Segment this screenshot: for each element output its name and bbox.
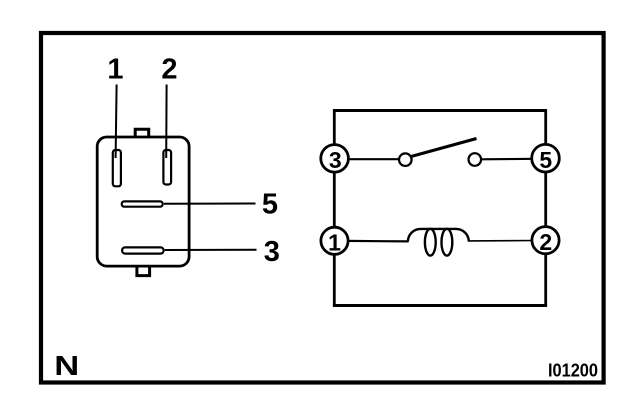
leader line pin 5: [164, 203, 256, 205]
terminal 1: [321, 227, 348, 255]
svg-text:5: 5: [539, 147, 552, 173]
terminal 5: [532, 144, 560, 172]
pin 5 slot: [122, 201, 163, 206]
wire right: [544, 109, 547, 306]
wire bottom: [333, 304, 547, 307]
leader line pin 1: [116, 85, 117, 159]
wire top: [334, 109, 547, 112]
coil lead from terminal 1: [345, 240, 409, 243]
switch fixed contact: [469, 153, 482, 166]
connector top tab: [135, 129, 149, 137]
pin 1 slot: [113, 150, 121, 186]
connector bottom tab: [137, 267, 150, 276]
svg-text:I01200: I01200: [548, 361, 598, 381]
switch pivot contact: [399, 153, 412, 166]
terminal 3: [321, 145, 349, 173]
svg-text:5: 5: [262, 189, 278, 221]
svg-text:1: 1: [107, 54, 123, 86]
wire from terminal 3 to switch: [345, 158, 399, 160]
coil lead to terminal 2: [469, 240, 536, 242]
pin 3 slot: [122, 247, 164, 253]
switch blade: [411, 139, 477, 157]
pin 2 slot: [163, 150, 171, 185]
relay connector body: [97, 137, 189, 266]
svg-text:N: N: [54, 350, 79, 381]
terminal 2: [532, 227, 559, 255]
svg-text:2: 2: [539, 229, 552, 255]
svg-text:1: 1: [328, 229, 341, 255]
wire left: [333, 109, 336, 306]
svg-text:3: 3: [329, 147, 342, 173]
svg-text:3: 3: [264, 236, 280, 268]
wire from switch to terminal 5: [482, 158, 537, 161]
svg-text:2: 2: [161, 54, 177, 86]
relay coil: [408, 229, 469, 256]
leader line pin 2: [165, 85, 167, 159]
leader line pin 3: [165, 249, 257, 251]
